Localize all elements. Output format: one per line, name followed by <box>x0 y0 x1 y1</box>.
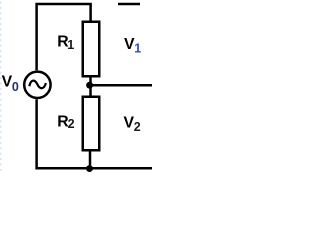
resistor R1 <box>83 22 100 77</box>
svg-text:1: 1 <box>134 42 141 56</box>
wire segment: top right <box>118 3 140 6</box>
svg-text:0: 0 <box>12 80 19 94</box>
wire: left loop (top wire + left vertical upper) <box>37 4 91 70</box>
wire: node V1 to R2 top <box>89 86 92 97</box>
wire: R2 bottom to bottom node <box>89 150 92 168</box>
svg-text:2: 2 <box>134 120 141 134</box>
wire: node V1 to right edge <box>90 84 152 87</box>
wire: left vertical lower + bottom wire <box>37 99 152 168</box>
node V1 junction dot <box>86 82 93 89</box>
sine symbol <box>29 81 46 89</box>
bottom junction dot <box>86 165 93 172</box>
page boundary dotted line (left edge) <box>0 0 2 174</box>
svg-text:2: 2 <box>68 117 75 131</box>
svg-text:1: 1 <box>67 38 74 52</box>
wire: R1 bottom to node V1 <box>89 76 92 85</box>
voltage source V0 <box>24 72 50 98</box>
resistor R2 <box>83 97 100 151</box>
